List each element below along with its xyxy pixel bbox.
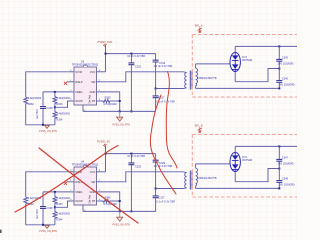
node RT junction: [119, 100, 121, 102]
capacitor C347: [276, 146, 293, 168]
svg-text:C325: C325: [135, 166, 142, 169]
svg-text:16V 103(X5R): 16V 103(X5R): [278, 162, 294, 165]
node secondary2 bottom junction: [278, 187, 280, 189]
svg-text:3.4k(F)0402: 3.4k(F)0402: [56, 212, 70, 215]
pin 7 SW: [97, 81, 102, 83]
wire diode2 bottom jog: [235, 169, 279, 182]
IC U301: [67, 59, 106, 111]
svg-text:C339: C339: [47, 207, 54, 210]
diode D71 dual schottky: [230, 46, 253, 81]
capacitor C317: [153, 89, 176, 112]
no-connect X on DISLP2: [64, 182, 67, 185]
svg-text:PVSS_ON_RTN: PVSS_ON_RTN: [112, 123, 130, 126]
svg-text:R333: R333: [56, 103, 63, 106]
svg-text:RT: RT: [92, 99, 96, 103]
capacitor C346: [276, 69, 294, 89]
svg-text:VCC: VCC: [90, 70, 96, 74]
resistor R335: [101, 96, 117, 106]
ground PVSS_ON_RTN center 2: [112, 211, 130, 226]
svg-text:PVDD_3V: PVDD_3V: [97, 140, 110, 144]
wire SYNC: [26, 72, 70, 97]
capacitor C348: [276, 169, 294, 189]
wire R332 bottom: [25, 105, 27, 125]
svg-text:VREG: VREG: [75, 190, 82, 194]
no-connect X on DISLP: [64, 82, 67, 85]
pin 6 SYNC: [70, 71, 75, 73]
ground PVSS_ON_RTN left 2: [39, 225, 57, 233]
wire VREG2: [43, 191, 70, 193]
svg-text:0.1 uF 6.3V X5R: 0.1 uF 6.3V X5R: [154, 165, 173, 168]
svg-text:BAT54W: BAT54W: [242, 59, 252, 62]
markup squiggle A: [150, 95, 176, 194]
wire primary bottom: [156, 88, 184, 90]
svg-text:0.1 uF 6.3V X5R: 0.1 uF 6.3V X5R: [154, 65, 173, 68]
node output rail junction: [278, 45, 280, 47]
svg-text:BPL_A: BPL_A: [195, 25, 203, 28]
svg-text:C346: C346: [282, 77, 289, 80]
svg-text:SW: SW: [91, 80, 96, 84]
wire secondary2 top to diode: [196, 163, 231, 165]
capacitor C326: [153, 154, 173, 189]
isolation dashed box 2: [192, 135, 298, 198]
svg-text:GND: GND: [90, 90, 96, 94]
node VIN2 junction: [105, 153, 107, 155]
svg-text:VCC: VCC: [90, 170, 96, 174]
node divider top junction: [54, 91, 56, 93]
pin 1 DISLP: [67, 81, 74, 83]
node C325 top junction: [130, 153, 132, 155]
svg-text:C327: C327: [158, 197, 165, 200]
svg-text:PVSS_ON_RTN: PVSS_ON_RTN: [39, 130, 57, 133]
svg-text:C348: C348: [282, 177, 289, 180]
node C338 ground junction: [42, 124, 44, 126]
capacitor C316: [153, 54, 173, 89]
pin 4 RT2: [97, 200, 102, 202]
resistor R332: [24, 97, 42, 106]
wire VIN2 rail: [106, 153, 156, 155]
node output rail 2 junction: [278, 145, 280, 147]
resistor R333: [53, 92, 70, 107]
isolation dashed box 1: [192, 35, 298, 98]
edge smudge bottom left: [0, 230, 2, 233]
diode D72 dual schottky: [230, 146, 253, 181]
wire secondary2 bottom rail: [196, 187, 280, 189]
resistor R334: [53, 107, 70, 121]
wire R342 bottom: [25, 205, 27, 225]
wire GND2 pin: [101, 192, 120, 212]
wire secondary top to diode: [196, 63, 231, 65]
wire SYNC2: [26, 172, 70, 197]
svg-text:10 uF 6.3V X5R: 10 uF 6.3V X5R: [127, 155, 145, 158]
svg-text:SYNC: SYNC: [75, 70, 82, 74]
svg-text:C347: C347: [282, 157, 289, 160]
svg-text:Die Pad: Die Pad: [89, 94, 92, 103]
svg-text:R343: R343: [56, 203, 63, 206]
pin 1 DISLP2: [67, 181, 74, 183]
pin 2 VREG: [70, 91, 75, 93]
svg-text:BPL_B: BPL_B: [195, 125, 203, 128]
wire RT to ground: [111, 100, 120, 102]
ground PVSS_ON_RTN left: [39, 125, 57, 133]
wire left ground rail: [26, 124, 55, 126]
wire SW to transformer: [101, 72, 184, 82]
svg-text:PVSS_ON_RTN: PVSS_ON_RTN: [112, 223, 130, 226]
pin 5 GND2: [97, 191, 102, 193]
node C339 ground junction: [42, 224, 44, 226]
capacitor C339: [36, 192, 53, 225]
svg-text:RT: RT: [92, 199, 96, 203]
svg-text:a78N40136LHTB: a78N40136LHTB: [197, 77, 217, 80]
wire diode bottom jog: [235, 69, 279, 82]
node gnd junction: [119, 110, 121, 112]
node divider tap junction: [54, 106, 56, 108]
wire OCOP tap: [55, 101, 70, 107]
capacitor C325: [127, 154, 145, 212]
wire VIN rail: [106, 53, 156, 55]
capacitor C327: [153, 189, 176, 212]
pin 3 OCOP2: [70, 200, 75, 202]
wire RT2 to ground: [111, 200, 120, 202]
wire SW2 to transformer: [101, 172, 184, 182]
wire R344 bottom: [54, 220, 56, 225]
svg-text:3.4k(F)0402: 3.4k(F)0402: [28, 97, 42, 100]
svg-text:C315: C315: [135, 66, 142, 69]
svg-text:OCOP: OCOP: [75, 99, 83, 103]
node C315 bottom junction: [130, 110, 132, 112]
wire VIN2 vertical: [105, 146, 107, 172]
power flag PVDD_3V: [97, 140, 110, 147]
resistor R343: [53, 192, 70, 207]
IC U302: [67, 159, 106, 211]
wire VREG: [43, 91, 70, 93]
resistor R345: [101, 196, 117, 206]
wire GND pin: [101, 92, 120, 112]
markup cross stroke backslash: [39, 148, 138, 223]
svg-text:a78N40136LHTB: a78N40136LHTB: [197, 177, 217, 180]
wire OCOP2 tap: [55, 201, 70, 207]
pin 8 VCC: [97, 71, 106, 73]
node RT2 junction: [119, 200, 121, 202]
capacitor C345: [276, 46, 293, 68]
svg-text:3.4k(F)0402: 3.4k(F)0402: [56, 112, 70, 115]
pin 4 RT: [97, 100, 102, 102]
svg-text:16V 103(X5R): 16V 103(X5R): [279, 184, 295, 187]
pin 7 SW2: [97, 181, 102, 183]
chassis flag BPL_A: [195, 25, 203, 33]
node C315 top junction: [130, 53, 132, 55]
svg-text:10 uF 6.3V X5R: 10 uF 6.3V X5R: [127, 55, 145, 58]
wire center ground rail: [83, 110, 156, 112]
svg-text:DISLP: DISLP: [75, 80, 83, 84]
svg-text:OCOP: OCOP: [75, 199, 83, 203]
ground PVSS_ON_RTN center: [112, 111, 130, 126]
svg-text:3.4k(F)0402: 3.4k(F)0402: [56, 97, 70, 100]
node SW2 snubber junction: [155, 188, 157, 190]
node C325 bottom junction: [130, 210, 132, 212]
capacitor C315: [127, 54, 145, 112]
svg-text:1uF 50V: 1uF 50V: [36, 209, 39, 219]
svg-text:BAT54W: BAT54W: [242, 159, 252, 162]
markup squiggle B: [166, 72, 177, 169]
svg-text:PVSS_ON_RTN: PVSS_ON_RTN: [39, 230, 57, 233]
capacitor C338: [36, 92, 53, 125]
pin 8 VCC2: [97, 171, 106, 173]
node divider2 tap junction: [54, 206, 56, 208]
pin 6 SYNC2: [70, 171, 75, 173]
wire primary2 bottom: [156, 188, 184, 190]
svg-text:0.1 uF 6.3V X5R: 0.1 uF 6.3V X5R: [157, 200, 176, 203]
wire diode2 top to output rail: [235, 145, 297, 147]
transformer T301: [184, 64, 217, 90]
wire VIN vertical: [105, 46, 107, 72]
wire left ground rail 2: [26, 224, 55, 226]
node VIN junction: [105, 53, 107, 55]
node gnd2 junction: [119, 210, 121, 212]
svg-text:PVDD_5V0: PVDD_5V0: [97, 40, 112, 44]
svg-text:R344: R344: [56, 218, 63, 221]
svg-text:Die Pad: Die Pad: [89, 194, 92, 203]
node mid junction: [278, 68, 280, 70]
node divider2 top junction: [54, 191, 56, 193]
svg-text:C338: C338: [47, 107, 54, 110]
svg-text:SW: SW: [91, 180, 96, 184]
wire diode top to output rail: [235, 45, 297, 47]
svg-text:3.4k(F)0402: 3.4k(F)0402: [56, 197, 70, 200]
node secondary bottom junction: [278, 87, 280, 89]
transformer T302: [184, 164, 217, 190]
svg-text:1uF 50V: 1uF 50V: [36, 109, 39, 119]
node mid junction 2: [278, 168, 280, 170]
wire secondary bottom rail: [196, 87, 280, 89]
svg-text:16V 103(X5R): 16V 103(X5R): [278, 62, 294, 65]
svg-text:R332: R332: [28, 103, 35, 106]
resistor R342: [24, 197, 42, 206]
markup cross stroke slash: [15, 146, 118, 213]
svg-text:C345: C345: [282, 57, 289, 60]
svg-text:TPS54302QDDCTRQ1: TPS54302QDDCTRQ1: [72, 163, 99, 167]
pin 5 GND: [97, 91, 102, 93]
svg-text:R334: R334: [56, 118, 63, 121]
pin 3 OCOP: [70, 100, 75, 102]
svg-text:VREG: VREG: [75, 90, 82, 94]
pin 2 VREG2: [70, 191, 75, 193]
wire center ground rail 2: [83, 210, 156, 212]
svg-text:0.1 uF 6.3V X5R: 0.1 uF 6.3V X5R: [157, 100, 176, 103]
svg-text:R335: R335: [105, 96, 112, 99]
wire R334 bottom: [54, 120, 56, 125]
svg-text:4.7k(F)0402: 4.7k(F)0402: [103, 103, 117, 106]
chassis flag BPL_B: [195, 125, 203, 133]
svg-text:TPS54302QDDCTRQ1: TPS54302QDDCTRQ1: [72, 63, 99, 67]
node SW snubber junction: [155, 88, 157, 90]
power flag PVDD_5V: [97, 40, 112, 46]
svg-text:16V 103(X5R): 16V 103(X5R): [279, 84, 295, 87]
resistor R344: [53, 207, 70, 221]
